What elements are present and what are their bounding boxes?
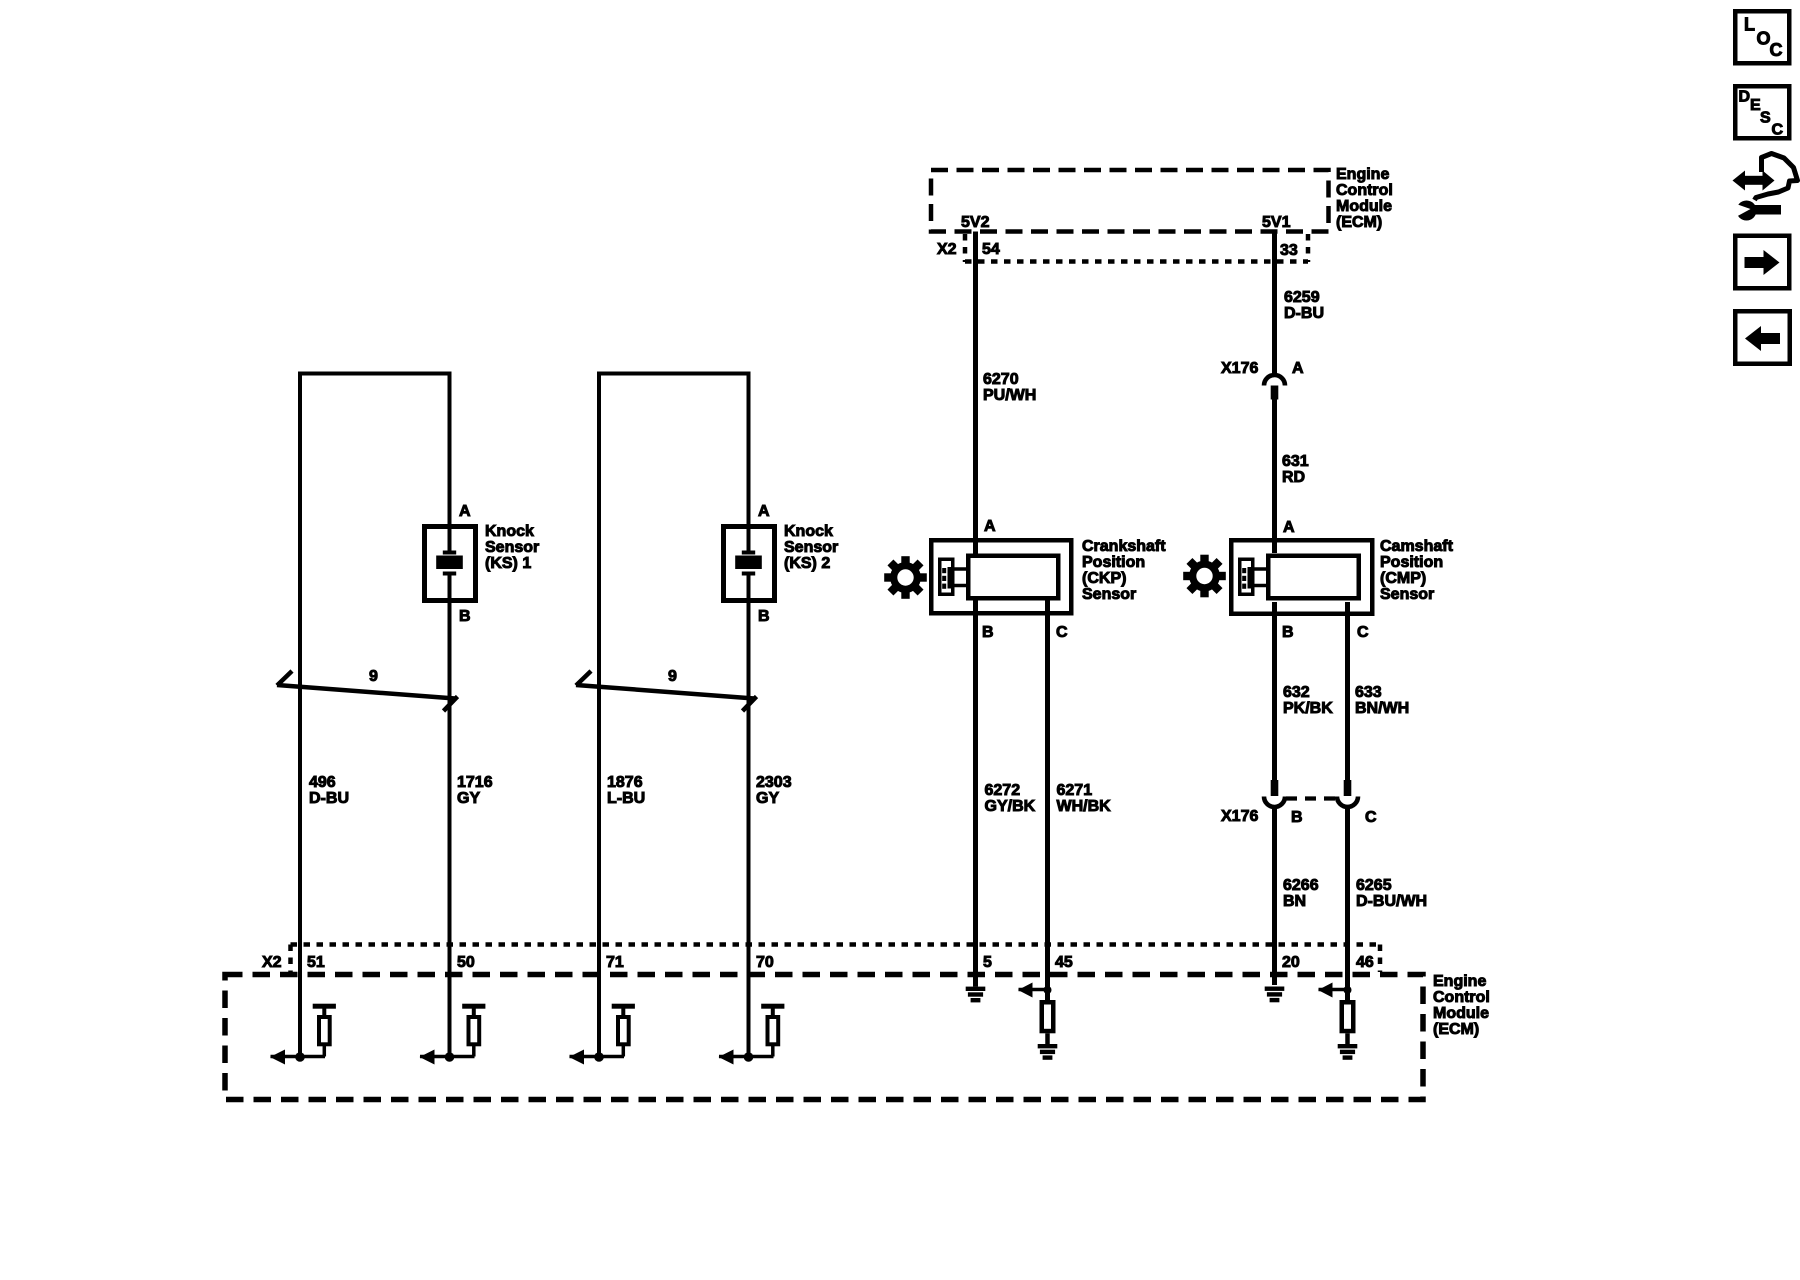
svg-text:6266: 6266	[1283, 877, 1319, 894]
svg-text:9: 9	[668, 668, 677, 685]
svg-text:GY: GY	[756, 790, 779, 807]
svg-text:B: B	[1282, 624, 1294, 641]
svg-text:L: L	[1744, 15, 1755, 35]
svg-text:Position: Position	[1380, 554, 1443, 571]
svg-text:B: B	[1291, 809, 1303, 826]
svg-text:496: 496	[309, 774, 336, 791]
svg-text:6259: 6259	[1284, 289, 1320, 306]
svg-text:C: C	[1365, 809, 1377, 826]
svg-text:BN/WH: BN/WH	[1355, 700, 1409, 717]
svg-text:631: 631	[1282, 453, 1309, 470]
svg-text:6272: 6272	[985, 782, 1021, 799]
svg-text:51: 51	[307, 954, 325, 971]
svg-text:X2: X2	[937, 241, 957, 258]
svg-text:(CKP): (CKP)	[1082, 570, 1126, 587]
svg-text:Sensor: Sensor	[784, 539, 838, 556]
svg-text:Engine: Engine	[1433, 973, 1486, 990]
svg-text:71: 71	[606, 954, 624, 971]
svg-text:Camshaft: Camshaft	[1380, 538, 1454, 555]
svg-text:46: 46	[1356, 954, 1374, 971]
svg-text:B: B	[758, 608, 770, 625]
svg-text:1716: 1716	[457, 774, 493, 791]
svg-text:Engine: Engine	[1336, 166, 1389, 183]
svg-text:Sensor: Sensor	[485, 539, 539, 556]
svg-text:(KS) 1: (KS) 1	[485, 555, 531, 572]
svg-text:X176: X176	[1221, 360, 1258, 377]
svg-text:Module: Module	[1433, 1005, 1489, 1022]
svg-text:D-BU: D-BU	[1284, 305, 1324, 322]
svg-text:(ECM): (ECM)	[1433, 1021, 1479, 1038]
svg-text:Sensor: Sensor	[1380, 586, 1434, 603]
svg-text:Module: Module	[1336, 198, 1392, 215]
svg-text:Knock: Knock	[784, 523, 833, 540]
svg-text:Sensor: Sensor	[1082, 586, 1136, 603]
svg-text:PU/WH: PU/WH	[983, 387, 1036, 404]
svg-text:A: A	[758, 503, 770, 520]
svg-text:1876: 1876	[607, 774, 643, 791]
svg-text:5V1: 5V1	[1262, 214, 1291, 231]
svg-text:O: O	[1757, 29, 1771, 49]
svg-text:9: 9	[369, 668, 378, 685]
svg-text:70: 70	[756, 954, 774, 971]
svg-text:6265: 6265	[1356, 877, 1392, 894]
svg-text:45: 45	[1055, 954, 1073, 971]
svg-text:A: A	[984, 518, 996, 535]
svg-text:BN: BN	[1283, 893, 1306, 910]
svg-text:B: B	[982, 624, 994, 641]
svg-text:5: 5	[983, 954, 992, 971]
svg-text:5V2: 5V2	[961, 214, 990, 231]
svg-text:A: A	[459, 503, 471, 520]
svg-text:C: C	[1772, 122, 1784, 139]
svg-text:633: 633	[1355, 684, 1382, 701]
svg-text:B: B	[459, 608, 471, 625]
svg-text:RD: RD	[1282, 469, 1305, 486]
svg-text:(ECM): (ECM)	[1336, 214, 1382, 231]
svg-text:X2: X2	[262, 954, 282, 971]
svg-text:Position: Position	[1082, 554, 1145, 571]
svg-text:632: 632	[1283, 684, 1310, 701]
svg-text:(KS) 2: (KS) 2	[784, 555, 830, 572]
svg-text:20: 20	[1282, 954, 1300, 971]
svg-text:C: C	[1357, 624, 1369, 641]
svg-text:Control: Control	[1433, 989, 1490, 1006]
svg-text:50: 50	[457, 954, 475, 971]
svg-text:(CMP): (CMP)	[1380, 570, 1426, 587]
svg-text:D-BU/WH: D-BU/WH	[1356, 893, 1427, 910]
svg-text:33: 33	[1280, 242, 1298, 259]
svg-text:A: A	[1283, 519, 1295, 536]
svg-text:D: D	[1739, 89, 1751, 106]
svg-text:54: 54	[982, 241, 1000, 258]
svg-text:L-BU: L-BU	[607, 790, 645, 807]
svg-text:Knock: Knock	[485, 523, 534, 540]
svg-text:S: S	[1760, 110, 1771, 127]
svg-text:GY/BK: GY/BK	[985, 798, 1036, 815]
svg-text:X176: X176	[1221, 808, 1258, 825]
svg-text:C: C	[1056, 624, 1068, 641]
svg-text:6271: 6271	[1057, 782, 1093, 799]
svg-text:C: C	[1770, 40, 1783, 60]
svg-text:2303: 2303	[756, 774, 792, 791]
svg-text:GY: GY	[457, 790, 480, 807]
svg-text:PK/BK: PK/BK	[1283, 700, 1333, 717]
svg-text:A: A	[1292, 360, 1304, 377]
svg-text:D-BU: D-BU	[309, 790, 349, 807]
svg-text:6270: 6270	[983, 371, 1019, 388]
svg-text:WH/BK: WH/BK	[1057, 798, 1112, 815]
svg-text:Crankshaft: Crankshaft	[1082, 538, 1166, 555]
svg-text:Control: Control	[1336, 182, 1393, 199]
